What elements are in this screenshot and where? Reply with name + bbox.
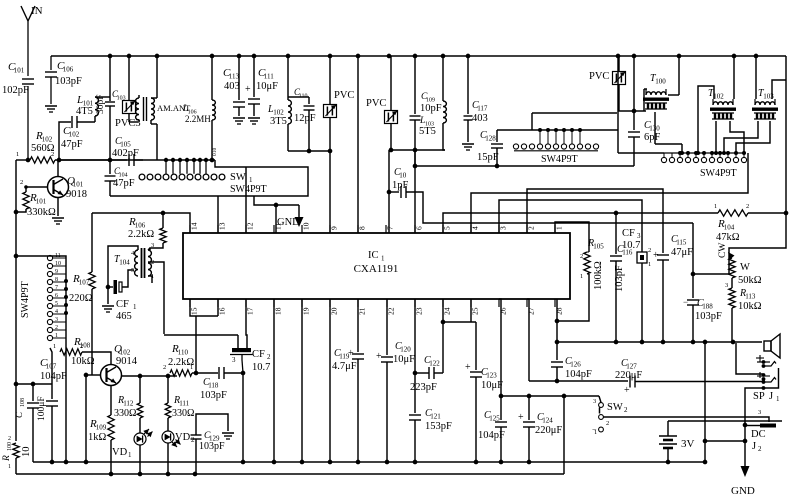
svg-text:188: 188 [702, 303, 713, 311]
svg-text:120: 120 [400, 346, 411, 354]
capacitor C113 [223, 56, 245, 124]
svg-text:10kΩ: 10kΩ [738, 301, 762, 312]
jack J1 [753, 355, 780, 403]
svg-text:16: 16 [218, 307, 227, 315]
svg-text:10: 10 [21, 447, 32, 458]
svg-text:105: 105 [593, 243, 604, 251]
wire pin1 route R105 [555, 222, 589, 252]
svg-text:21: 21 [358, 307, 367, 315]
battery 3V [659, 421, 782, 462]
resistor R112 [114, 376, 143, 433]
capacitor C127 polarized [615, 358, 762, 396]
resistor R106 [128, 213, 166, 250]
wire base line y160 [16, 158, 61, 163]
svg-text:330Ω: 330Ω [172, 408, 194, 419]
resistor R111 [165, 376, 194, 431]
variable capacitor PVC top [589, 56, 646, 111]
svg-text:7: 7 [386, 226, 395, 230]
svg-text:24: 24 [443, 307, 452, 315]
svg-text:402pF: 402pF [112, 148, 139, 159]
wire pin2 route C115 [527, 189, 663, 253]
switch SW3 SW4P9T [618, 130, 747, 179]
svg-text:1: 1 [53, 343, 56, 350]
wire pin3 route CF3 [499, 200, 642, 250]
capacitor C105 [59, 136, 143, 166]
svg-text:R: R [2, 455, 12, 462]
capacitor C129 [191, 414, 235, 474]
capacitor C128 [477, 130, 503, 166]
svg-text:50kΩ: 50kΩ [738, 275, 762, 286]
svg-text:108: 108 [80, 342, 91, 350]
capacitor C116 [610, 213, 633, 342]
svg-text:113: 113 [745, 293, 756, 301]
svg-text:403: 403 [472, 113, 488, 124]
svg-text:2: 2 [163, 364, 166, 371]
svg-text:2.2kΩ: 2.2kΩ [128, 229, 154, 240]
svg-text:17: 17 [246, 307, 255, 315]
svg-text:PVC: PVC [366, 98, 386, 109]
svg-text:15: 15 [190, 307, 199, 315]
svg-text:101: 101 [14, 67, 25, 75]
wire pin5 to R104 line y213 [443, 203, 749, 233]
svg-text:SW: SW [607, 402, 623, 413]
svg-text:102: 102 [713, 93, 724, 101]
svg-text:10pF: 10pF [420, 103, 442, 114]
svg-text:113: 113 [229, 73, 240, 81]
svg-text:1: 1 [190, 364, 193, 371]
svg-text:3V: 3V [681, 438, 695, 450]
capacitor C104 [105, 158, 135, 196]
svg-text:2: 2 [20, 179, 23, 186]
ceramic filter CF2 10.7 [230, 299, 271, 462]
wire audio out y381 [529, 379, 628, 384]
inductor L106 2.2MH [210, 56, 216, 162]
svg-text:VD: VD [175, 432, 191, 443]
svg-text:+: + [245, 84, 251, 95]
svg-text:1: 1 [249, 176, 253, 184]
wire FM ant y150 [389, 148, 445, 153]
transistor Q101 [26, 160, 87, 224]
resistor R102 [16, 130, 143, 163]
wire pin8 riser [357, 56, 359, 233]
svg-text:465: 465 [116, 311, 132, 322]
svg-text:1: 1 [555, 226, 564, 230]
svg-text:30pF: 30pF [96, 94, 106, 114]
svg-text:3: 3 [725, 282, 728, 289]
ground GND arrow bottom [731, 466, 755, 497]
inductor L102 3T5 [267, 56, 309, 151]
svg-text:14: 14 [190, 222, 199, 230]
inductor L103 5T5 [419, 56, 446, 150]
svg-text:2: 2 [527, 226, 536, 230]
transformer T100 [643, 56, 684, 155]
svg-text:CW: CW [718, 243, 728, 258]
svg-text:102pF: 102pF [2, 85, 29, 96]
svg-text:10.7: 10.7 [622, 240, 640, 251]
svg-text:CXA1191: CXA1191 [354, 263, 399, 275]
svg-text:110: 110 [299, 94, 308, 100]
svg-text:4T5: 4T5 [76, 106, 93, 117]
transformer T104 [92, 213, 164, 334]
wire pin11 GND line [254, 196, 299, 233]
svg-text:103pF: 103pF [200, 390, 227, 401]
capacitor C103 [105, 56, 126, 160]
wire pin4 route [471, 153, 748, 233]
svg-text:47pF: 47pF [61, 139, 83, 150]
svg-text:403: 403 [224, 81, 240, 92]
svg-text:3: 3 [232, 356, 236, 364]
svg-text:26: 26 [499, 307, 508, 315]
svg-text:220μF: 220μF [535, 425, 562, 436]
svg-text:8: 8 [55, 277, 58, 283]
resistor R104 [716, 210, 788, 243]
svg-text:4: 4 [55, 309, 58, 315]
wire pin13 riser [217, 196, 219, 233]
svg-text:SP: SP [753, 391, 765, 402]
wire y384 [16, 382, 52, 387]
wire pin25 [443, 299, 476, 322]
svg-text:J: J [752, 441, 756, 452]
svg-text:223pF: 223pF [410, 382, 437, 393]
wire bus2 riser [563, 396, 565, 474]
resistor R100 [2, 436, 32, 474]
svg-text:220μF: 220μF [615, 370, 642, 381]
svg-text:C: C [14, 411, 24, 418]
svg-text:SW: SW [230, 172, 246, 183]
svg-text:IC: IC [368, 250, 379, 261]
svg-text:117: 117 [477, 105, 488, 113]
svg-text:18: 18 [274, 307, 283, 315]
svg-text:5: 5 [55, 301, 58, 307]
svg-text:123: 123 [486, 372, 497, 380]
svg-text:J: J [769, 391, 773, 402]
wire left rail [14, 160, 19, 441]
transformer AM ANT [136, 56, 212, 160]
svg-text:121: 121 [430, 413, 441, 421]
svg-text:1: 1 [776, 395, 780, 403]
svg-text:1kΩ: 1kΩ [88, 432, 107, 443]
wire collector line [140, 374, 177, 379]
svg-text:6: 6 [415, 226, 424, 230]
svg-text:7: 7 [55, 285, 58, 291]
svg-text:1: 1 [381, 255, 385, 263]
wire pin20 [329, 299, 331, 462]
svg-text:10μF: 10μF [481, 380, 503, 391]
svg-text:100: 100 [655, 78, 666, 86]
svg-text:15pF: 15pF [477, 152, 499, 163]
svg-text:124: 124 [542, 417, 553, 425]
svg-text:10kΩ: 10kΩ [71, 356, 95, 367]
svg-text:101: 101 [73, 181, 84, 189]
svg-text:23: 23 [415, 307, 424, 315]
svg-text:2: 2 [151, 259, 154, 266]
svg-text:+: + [653, 250, 659, 261]
resistor R108 [53, 336, 111, 367]
wire pin6 riser [414, 150, 416, 233]
svg-text:1: 1 [648, 261, 651, 268]
wire bus1 ground [33, 460, 707, 465]
svg-text:4: 4 [471, 226, 480, 230]
wire pins15 16 [190, 299, 218, 373]
dc jack J2 [604, 409, 777, 453]
svg-text:1: 1 [8, 464, 11, 470]
svg-text:20: 20 [330, 307, 339, 315]
svg-text:104pF: 104pF [478, 430, 505, 441]
wire pin26 [499, 299, 504, 398]
svg-text:220Ω: 220Ω [69, 293, 93, 304]
svg-text:4.7μF: 4.7μF [332, 361, 357, 372]
wire jack loop [736, 343, 763, 374]
switch SW1 SW4P9T [110, 148, 308, 197]
wire emitter rail [85, 375, 87, 462]
svg-text:103pF: 103pF [199, 441, 225, 452]
svg-text:2: 2 [758, 445, 762, 453]
transformer T103 [722, 56, 786, 155]
svg-text:10μF: 10μF [256, 81, 278, 92]
svg-text:8: 8 [358, 226, 367, 230]
svg-text:103pF: 103pF [695, 311, 722, 322]
svg-text:9: 9 [55, 269, 58, 275]
svg-text:111: 111 [264, 73, 274, 81]
svg-text:3: 3 [499, 226, 508, 230]
svg-text:+: + [376, 351, 382, 362]
svg-text:SW4P9T: SW4P9T [541, 154, 578, 165]
capacitor C126 [551, 342, 592, 381]
capacitor C122 [410, 320, 445, 393]
svg-text:330kΩ: 330kΩ [27, 207, 56, 218]
svg-text:SW4P9T: SW4P9T [230, 184, 267, 195]
wire y396 [501, 394, 599, 399]
svg-text:2: 2 [267, 353, 271, 361]
svg-text:12pF: 12pF [294, 113, 316, 124]
svg-text:9018: 9018 [66, 189, 87, 200]
svg-text:CF: CF [116, 299, 129, 310]
variable capacitor PVC1 [324, 56, 355, 151]
op-amp U1 IC1 CXA1191 [183, 222, 570, 315]
variable capacitor PVC3 [115, 56, 141, 129]
variable capacitor PVC2 [366, 56, 398, 150]
capacitor C10 1pF [389, 167, 693, 223]
switch SW left SW4P9T [20, 253, 66, 341]
svg-text:−: − [592, 425, 597, 434]
svg-text:47kΩ: 47kΩ [716, 232, 740, 243]
wire R105 net [557, 274, 589, 321]
potentiometer W 50k R113 [718, 243, 762, 342]
svg-text:10: 10 [302, 222, 311, 230]
svg-text:010: 010 [212, 148, 218, 157]
svg-text:2: 2 [746, 203, 749, 210]
svg-text:2: 2 [624, 406, 628, 414]
svg-text:25: 25 [471, 307, 480, 315]
capacitor C119 polarized [332, 299, 364, 462]
capacitor C118 [200, 367, 245, 401]
svg-text:1pF: 1pF [392, 180, 409, 191]
wire J1 gnd [743, 388, 763, 466]
svg-text:1: 1 [133, 303, 137, 311]
svg-text:3: 3 [55, 317, 58, 323]
svg-text:47pF: 47pF [113, 178, 135, 189]
resistor R107 [69, 246, 95, 375]
svg-text:104pF: 104pF [565, 369, 592, 380]
ceramic filter CF3 10.7 [622, 228, 651, 342]
wire pin14 R106 line [92, 211, 190, 233]
svg-text:100kΩ: 100kΩ [593, 261, 604, 290]
wire y441 [705, 440, 745, 442]
svg-text:10.7: 10.7 [252, 362, 270, 373]
svg-text:2: 2 [51, 151, 54, 158]
svg-text:118: 118 [208, 382, 219, 390]
svg-text:+: + [624, 385, 630, 396]
svg-text:122: 122 [429, 360, 440, 368]
svg-text:107: 107 [46, 363, 57, 371]
svg-text:CF: CF [252, 349, 265, 360]
capacitor C109 [410, 56, 442, 150]
svg-text:2: 2 [606, 420, 609, 427]
svg-text:106: 106 [63, 66, 74, 74]
svg-text:1: 1 [714, 203, 717, 210]
svg-text:3: 3 [637, 232, 641, 240]
capacitor C117 [462, 56, 488, 150]
svg-text:2.2MH: 2.2MH [185, 114, 211, 124]
capacitor C110 [294, 87, 316, 151]
svg-text:3: 3 [151, 242, 154, 249]
resistor R110 [163, 343, 218, 376]
svg-text:112: 112 [123, 400, 134, 408]
svg-text:1: 1 [151, 273, 154, 280]
wire contact1 to C107 [50, 348, 52, 384]
svg-text:100: 100 [7, 442, 13, 451]
svg-text:128: 128 [485, 135, 496, 143]
capacitor C123 polarized [465, 322, 503, 462]
capacitor C115 polarized [653, 234, 693, 342]
svg-text:115: 115 [676, 239, 687, 247]
wire T104 pin2 to CF2 [164, 334, 238, 336]
svg-text:109: 109 [96, 424, 107, 432]
wire left SW common riser [16, 256, 68, 462]
svg-text:47μF: 47μF [671, 247, 693, 258]
wire riser 618 [617, 56, 619, 130]
wire volume feed [691, 223, 735, 276]
wire pin19 [301, 299, 303, 462]
capacitor C111 polarized [245, 56, 278, 124]
svg-text:3T5: 3T5 [270, 116, 287, 127]
svg-text:125: 125 [489, 415, 500, 423]
capacitor C124 polarized [518, 396, 562, 462]
svg-text:103pF: 103pF [614, 265, 625, 292]
svg-text:PVC: PVC [334, 90, 354, 101]
resistor R105 [580, 238, 604, 290]
svg-text:2: 2 [191, 436, 195, 444]
svg-text:9014: 9014 [116, 356, 138, 367]
svg-text:2: 2 [55, 325, 58, 331]
svg-text:+: + [518, 412, 524, 423]
svg-text:6pF: 6pF [644, 132, 661, 143]
svg-text:330Ω: 330Ω [114, 408, 136, 419]
svg-text:VD: VD [112, 447, 128, 458]
svg-text:10μF: 10μF [393, 354, 415, 365]
wire pin18 [273, 299, 275, 462]
svg-text:GND: GND [277, 217, 300, 228]
svg-text:3: 3 [593, 398, 596, 405]
svg-text:1: 1 [16, 151, 19, 158]
LED VD1 [112, 429, 153, 474]
svg-text:PVC: PVC [589, 71, 609, 82]
svg-text:2: 2 [648, 247, 651, 254]
svg-text:11: 11 [55, 253, 61, 259]
antenna IN [21, 5, 43, 76]
svg-text:110: 110 [178, 349, 189, 357]
svg-text:102: 102 [69, 131, 80, 139]
svg-text:107: 107 [79, 279, 90, 287]
svg-text:103: 103 [763, 93, 774, 101]
svg-text:+: + [465, 362, 471, 373]
svg-text:CF: CF [622, 228, 635, 239]
svg-text:2: 2 [8, 436, 11, 442]
capacitor C106 [45, 56, 82, 112]
resistor R109 [88, 415, 114, 474]
transistor Q102 [84, 343, 143, 415]
svg-text:1: 1 [55, 333, 58, 339]
svg-text:22: 22 [387, 307, 396, 315]
inductor L101 4T5 [76, 94, 110, 122]
capacitor C120 polarized [376, 299, 415, 462]
svg-text:10: 10 [399, 172, 407, 180]
capacitor C125 [478, 396, 507, 462]
wire y343 AF bus [557, 340, 762, 345]
ceramic filter CF1 465 [102, 270, 137, 322]
svg-text:19: 19 [302, 307, 311, 315]
svg-text:9: 9 [330, 226, 339, 230]
svg-text:111: 111 [179, 400, 189, 408]
svg-text:1: 1 [580, 273, 583, 280]
switch SW2 [592, 396, 628, 436]
svg-text:126: 126 [570, 361, 581, 369]
svg-text:119: 119 [339, 353, 350, 361]
capacitor C108 polarized [14, 384, 47, 462]
LED VD2 [162, 431, 195, 474]
speaker SP [764, 334, 780, 358]
wire pin7 riser [387, 150, 392, 233]
capacitor C107 [40, 357, 67, 462]
svg-text:12: 12 [246, 222, 255, 230]
svg-text:W: W [740, 262, 750, 273]
capacitor C101 [2, 61, 34, 160]
svg-text:103pF: 103pF [55, 76, 82, 87]
svg-text:5T5: 5T5 [419, 126, 436, 137]
svg-text:108: 108 [20, 398, 26, 407]
svg-text:DC: DC [751, 429, 766, 440]
wire right edge rail [729, 56, 786, 274]
svg-text:6: 6 [55, 293, 58, 299]
svg-text:28: 28 [555, 307, 564, 315]
ground GND arrow pin10 [277, 205, 304, 228]
resistor R101 [16, 179, 56, 218]
wire pin27 [527, 299, 529, 381]
capacitor C102 [59, 116, 95, 160]
svg-text:GND: GND [731, 485, 755, 497]
svg-text:10: 10 [55, 261, 61, 267]
svg-text:104pF: 104pF [40, 371, 67, 382]
capacitor C121 [409, 299, 452, 462]
svg-text:153pF: 153pF [425, 421, 452, 432]
svg-text:1: 1 [128, 451, 132, 459]
wire speaker feed [703, 342, 708, 462]
svg-text:104: 104 [119, 259, 130, 267]
svg-text:104: 104 [724, 224, 735, 232]
svg-text:IN: IN [31, 5, 43, 17]
wire top V+ bus [51, 54, 786, 59]
capacitor C130 [628, 56, 661, 166]
